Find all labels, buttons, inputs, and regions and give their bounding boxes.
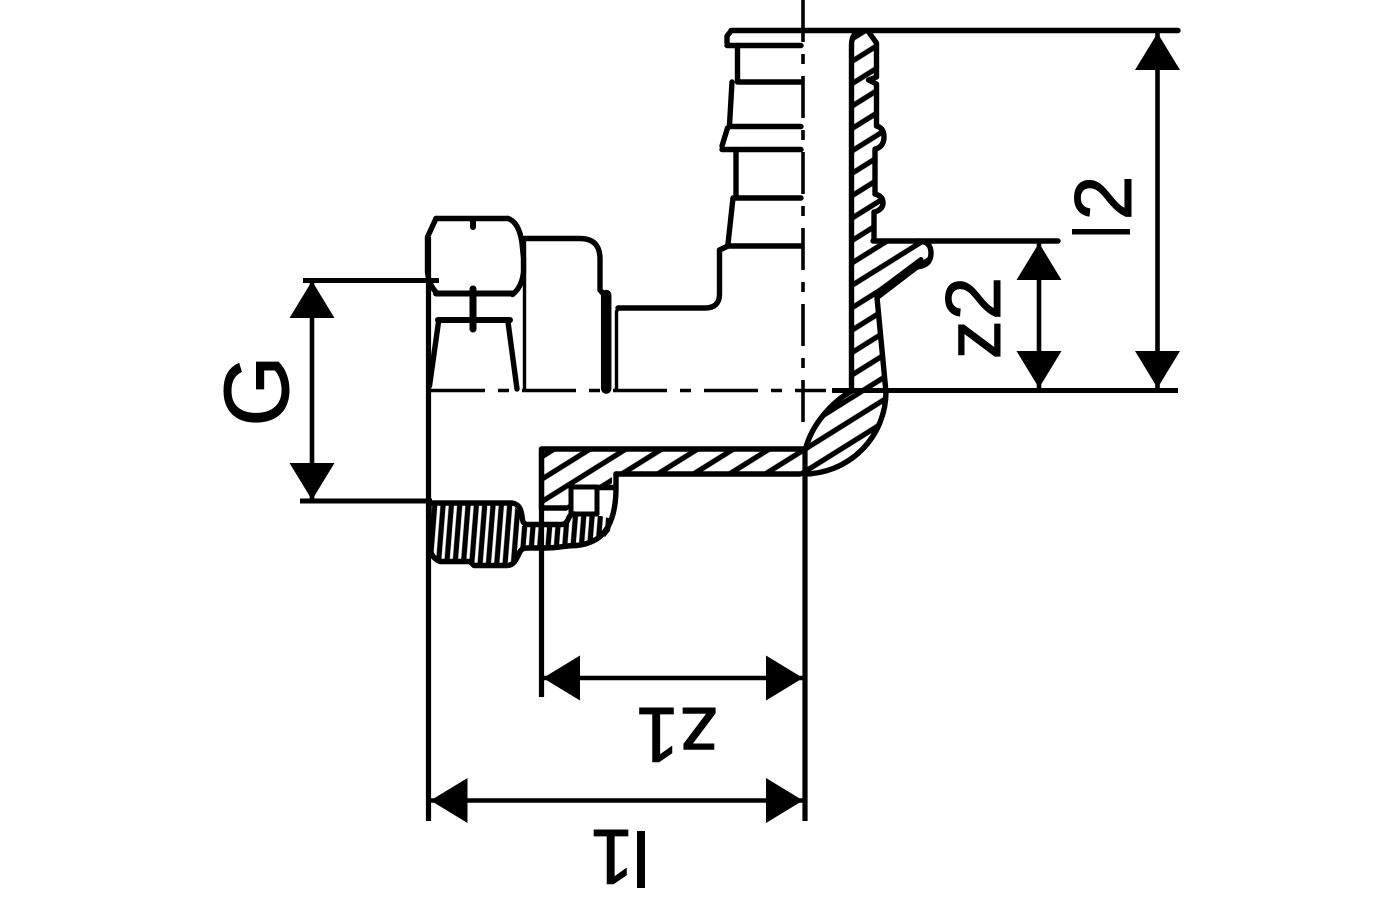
tailpiece flange bottom face right of seal groove [576,474,616,546]
sectioned elbow bend (hatch fill) [804,388,887,472]
fin internal hatch line [879,260,921,292]
spigot sectioned wall inner bore edge [852,31,862,391]
tailpiece pipe outer surface [616,471,800,476]
G top extension line [303,278,439,283]
union nut hex corner tick at top [470,219,476,227]
G bottom extension line [300,499,432,504]
tailpiece pipe bore line (inner surface) [542,446,803,451]
dimension G arrow up [290,281,335,318]
dimension l1 arrow left [431,778,468,823]
sectioned right wall of barb spigot (hatch fill) [852,33,883,240]
z1 left extension line [539,449,544,697]
barb ring 2 external profile (left) [730,82,802,127]
tailpiece flange left face [539,449,544,508]
dimension G line [310,281,315,500]
union nut chamfer band upper line [436,291,512,297]
sectioned tailpiece flange (hatch fill) [542,449,612,508]
tailpiece flange bottom face left of seal groove [542,505,567,510]
union nut right silhouette [508,219,524,295]
dimension l2 arrow down [1135,351,1180,388]
seal ring groove [571,487,597,514]
centerline solid extension for z2 and l2 [832,388,1178,393]
z1 and l1 right extension line on elbow axis [802,449,807,821]
dimension z2 line [1037,243,1042,388]
elbow outer surface arc [804,392,887,475]
barb ring 3 external profile (left) [728,198,801,246]
dimension z2 arrow up [1017,243,1062,280]
thread neck and seal seat zone (fine thread hatch fill) [522,516,613,546]
dimension l2 arrow up [1135,33,1180,70]
dimension G arrow down [290,463,335,500]
dimension z1 arrow right [766,656,803,701]
svg-text:2: 2 [1059,175,1149,220]
elbow inner surface arc [806,391,852,449]
dimension l2 line [1155,33,1160,388]
body step edge above collar [617,308,619,389]
collar of union joint [525,239,607,298]
barb shaft 1 (left) [735,46,740,82]
svg-text:1: 1 [590,813,633,900]
spigot sectioned wall outer profile [868,31,884,239]
male thread engaged zone (fine thread hatch fill) [430,504,522,564]
male thread upper outline [429,503,575,525]
dimension l1 arrow right [766,778,803,823]
collar front face line [523,240,526,388]
barb shaft 2 (left) [733,150,738,198]
svg-text:z2: z2 [929,277,1017,359]
union nut chamfer band lower line [438,317,510,323]
svg-text:z1: z1 [636,691,718,779]
union nut right flank below band [508,322,517,389]
dimension z1 line [543,676,803,681]
body upper-left external profile [618,246,728,308]
barb flare ring external profile (left) [722,128,801,150]
l1 left extension line [426,237,431,821]
sectioned body wall below fin (hatch fill) [852,240,886,393]
vertical centerline of barb spigot [801,0,805,424]
union nut left flank below band [430,322,439,386]
body shoulder and z2 extension line [873,238,1058,243]
body front edge thick bar [601,295,612,389]
conical fin of body (sectioned) [877,241,931,387]
barb flange 1 external profile (left) [727,31,801,46]
dimension z2 arrow down [1017,351,1062,388]
sectioned tailpiece pipe wall (hatch fill) [542,449,806,472]
svg-text:G: G [206,355,308,427]
union nut hex corner edge across band [470,289,477,329]
dimension z1 arrow left [543,656,580,701]
horizontal centerline of union axis [431,389,826,393]
male thread lower outline [429,503,576,566]
sectioned conical fin of body (hatch fill) [874,239,928,299]
dimension l1 line [431,798,804,803]
top face of spigot and l2 extension line [731,28,1178,33]
union nut top face [436,216,508,221]
union nut left silhouette [428,219,438,294]
